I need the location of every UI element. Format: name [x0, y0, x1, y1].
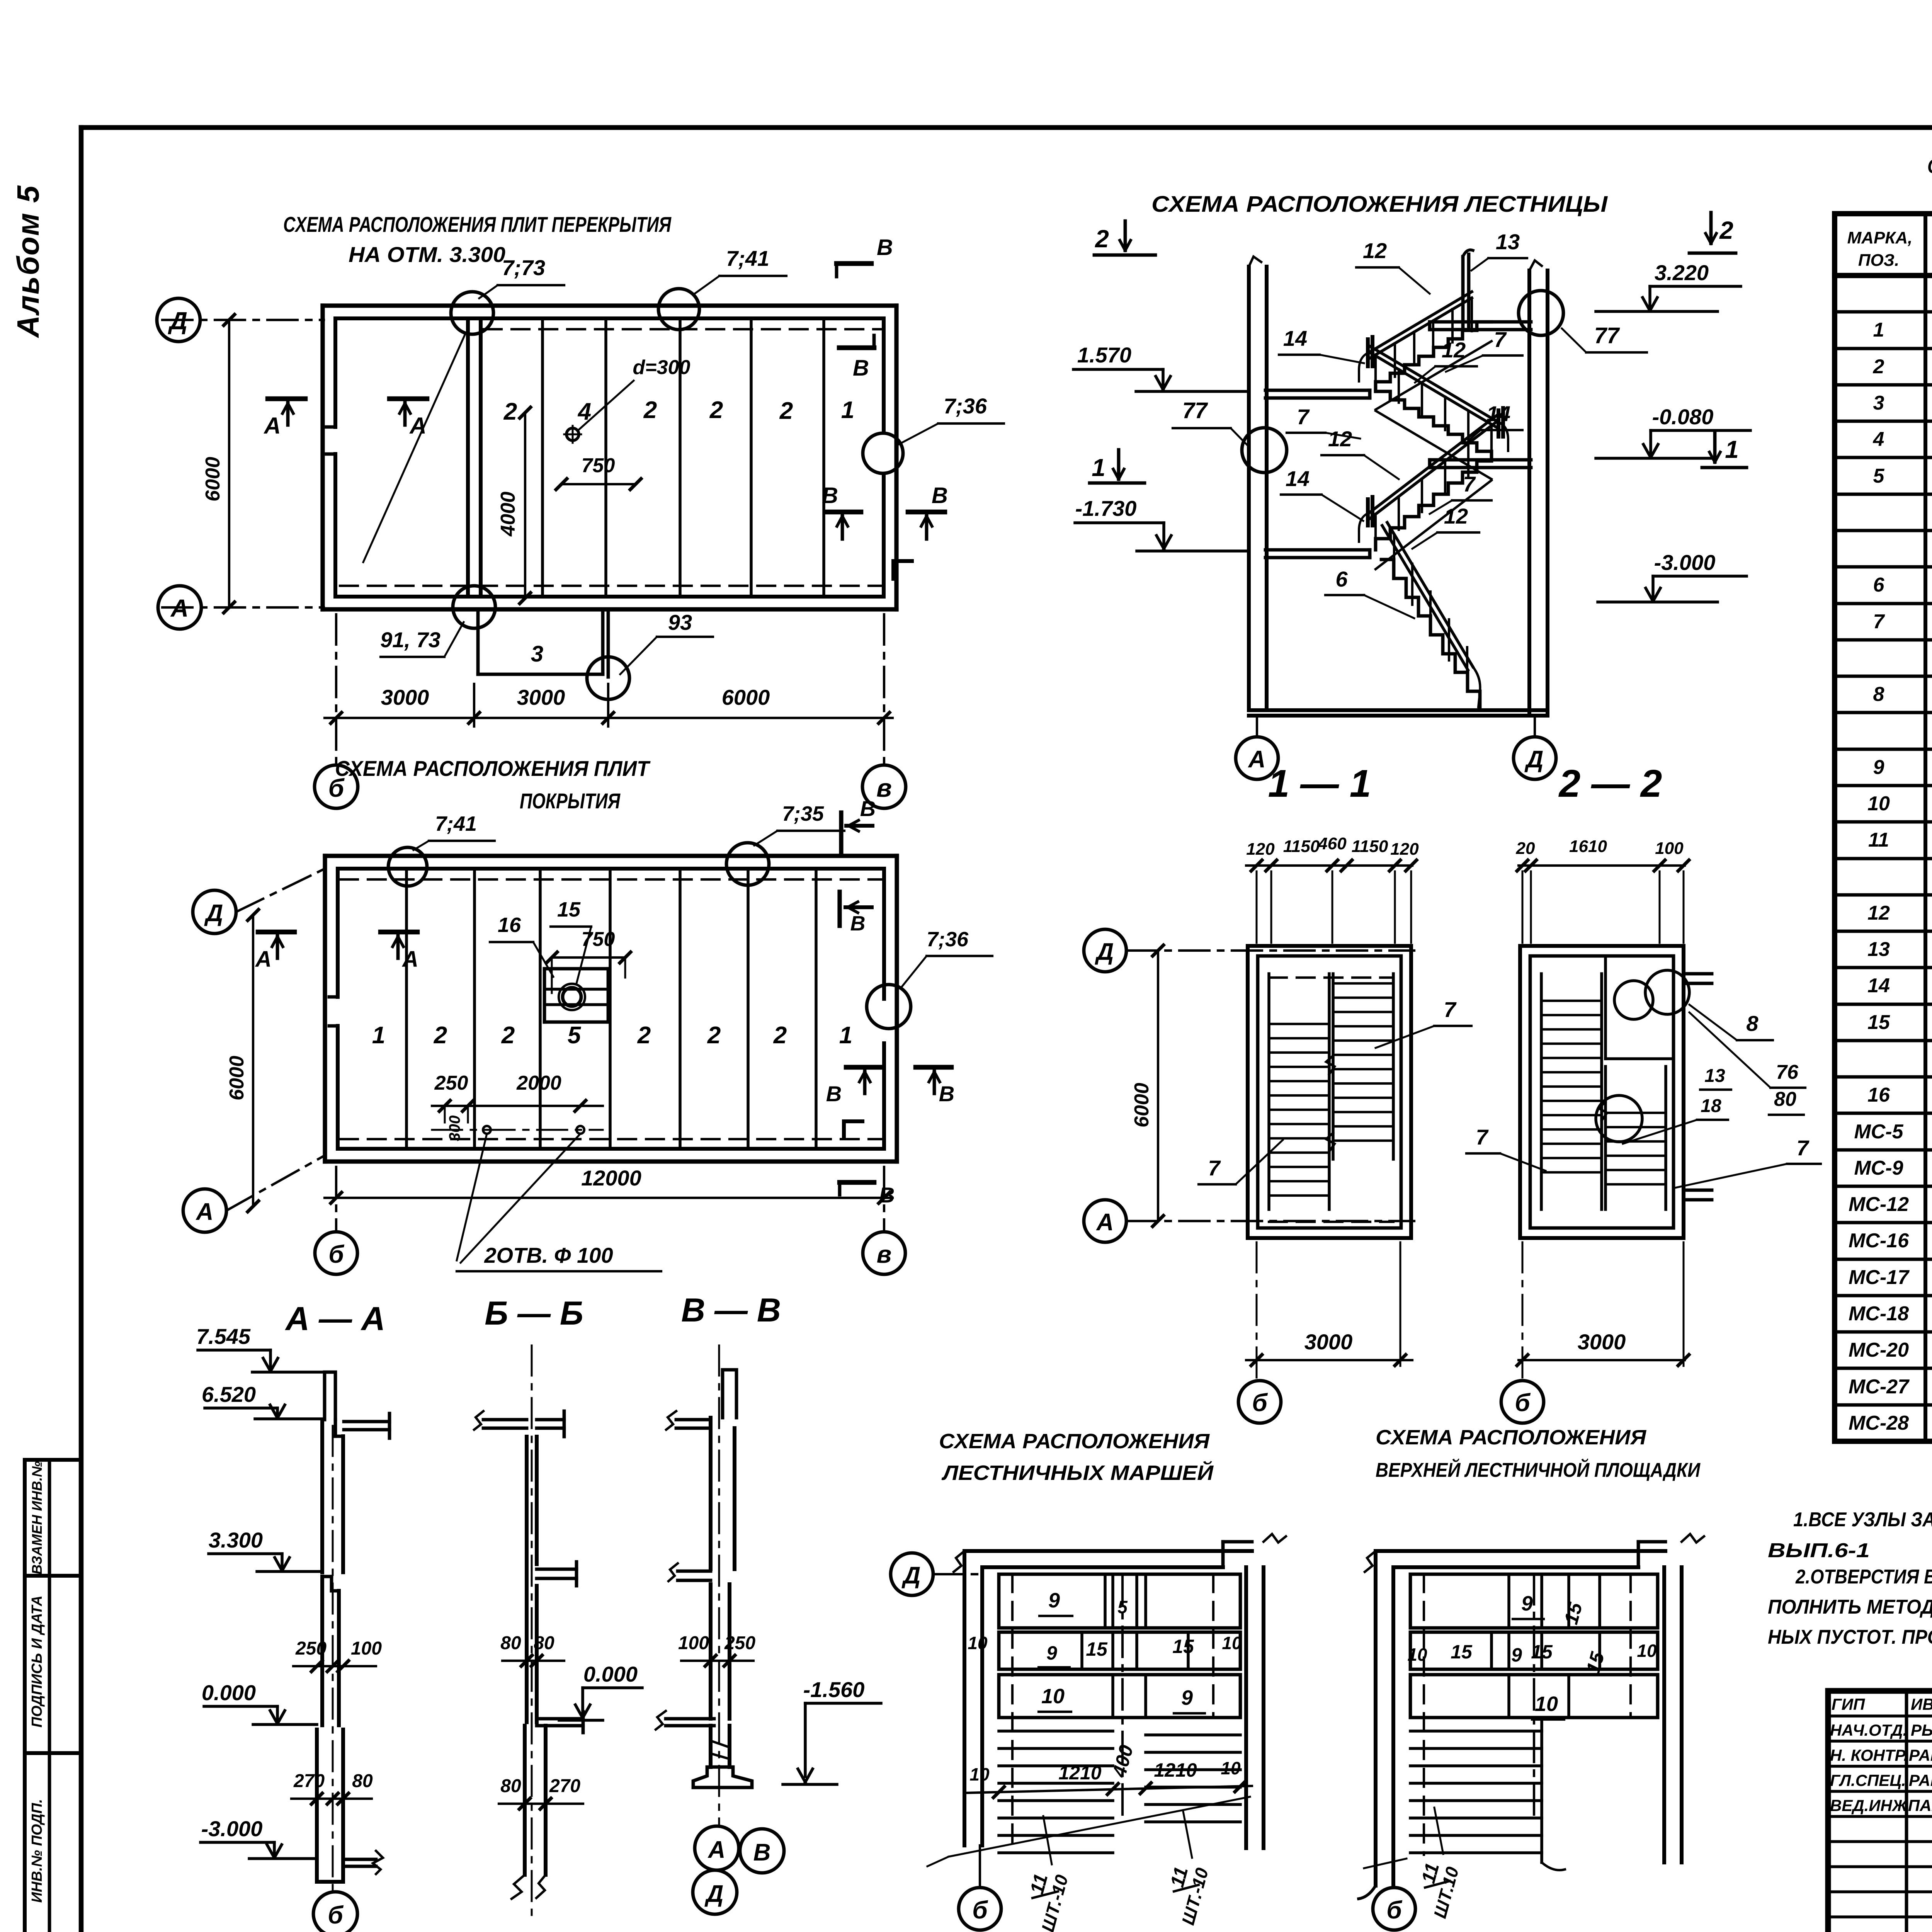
scheme1 left wall [963, 1551, 966, 1845]
svg-text:б: б [1386, 1896, 1403, 1924]
plan1 right wall [894, 306, 898, 609]
svg-text:7: 7 [1208, 1156, 1221, 1180]
svg-text:12000: 12000 [581, 1166, 641, 1190]
svg-text:10: 10 [1637, 1641, 1657, 1661]
svg-text:ВЕРХНЕЙ ЛЕСТНИЧНОЙ ПЛОЩАДКИ: ВЕРХНЕЙ ЛЕСТНИЧНОЙ ПЛОЩАДКИ [1376, 1458, 1701, 1481]
scheme1 diagonal break [949, 1797, 1250, 1857]
svg-text:В: В [877, 235, 893, 260]
svg-text:7: 7 [1494, 327, 1507, 352]
axis Д line [162, 319, 324, 321]
svg-text:Б — Б: Б — Б [485, 1295, 583, 1332]
Б-Б slab 3.300 stub [537, 1568, 577, 1571]
svg-text:6: 6 [1335, 567, 1348, 591]
title block left grid [1905, 1691, 1908, 1932]
axis circle б 1-1 [1238, 1381, 1281, 1423]
узел circle 77 left [1242, 428, 1287, 473]
scheme1 landing grid row2 [999, 1632, 1240, 1669]
svg-text:13: 13 [1867, 938, 1890, 961]
svg-text:8: 8 [1873, 683, 1884, 706]
svg-text:Н. КОНТР.: Н. КОНТР. [1830, 1746, 1908, 1764]
plan 2-2 right flight treads [1605, 1112, 1666, 1114]
svg-text:12: 12 [1867, 902, 1890, 924]
scheme2 left wall [1374, 1551, 1378, 1886]
svg-text:А: А [170, 594, 189, 622]
plan 2-2 detail circles [1614, 981, 1653, 1019]
В-В foundation pad [693, 1767, 752, 1787]
left stamp column boxes [23, 1460, 27, 1932]
svg-text:3000: 3000 [517, 685, 565, 709]
svg-text:14: 14 [1486, 401, 1510, 426]
svg-text:ПОДПИСЬ И ДАТА: ПОДПИСЬ И ДАТА [29, 1595, 45, 1728]
axis А line 1-1 [1127, 1220, 1414, 1222]
svg-text:СХЕМА РАСПОЛОЖЕНИЯ ПЛИТ ПЕРЕКР: СХЕМА РАСПОЛОЖЕНИЯ ПЛИТ ПЕРЕКРЫТИЯ [283, 212, 672, 236]
svg-text:2000: 2000 [516, 1072, 561, 1094]
section mark А-А right plan2 [381, 930, 417, 935]
А-А upper wall [320, 1420, 324, 1572]
svg-text:1 — 1: 1 — 1 [1268, 762, 1371, 805]
svg-text:2ОТВ. Ф 100: 2ОТВ. Ф 100 [484, 1243, 613, 1267]
axis circle Д plan2 left [193, 890, 236, 934]
section mark В mid plan2 [846, 1065, 882, 1070]
spec table header separator [1835, 273, 1932, 278]
section mark В right plan2 [916, 1065, 951, 1070]
svg-text:РАШЕВСКИЙ: РАШЕВСКИЙ [1909, 1770, 1932, 1789]
svg-text:ВЗАМЕН ИНВ.№: ВЗАМЕН ИНВ.№ [29, 1461, 45, 1574]
scheme1 left flight treads [999, 1730, 1113, 1733]
axis circle Д [157, 298, 200, 342]
svg-text:МС-18: МС-18 [1849, 1303, 1909, 1325]
А-А bottom slab stub [344, 1858, 376, 1861]
В-В upper wall [709, 1418, 713, 1569]
svg-text:1610: 1610 [1569, 837, 1607, 856]
scheme2 diagonal break [1364, 1859, 1406, 1868]
svg-text:100: 100 [351, 1638, 382, 1659]
label 2отв. ф100 [457, 1134, 487, 1260]
svg-text:1: 1 [1873, 319, 1884, 341]
axis circle б plan2 [315, 1232, 357, 1274]
svg-text:ПОКРЫТИЯ: ПОКРЫТИЯ [520, 789, 621, 813]
plan1 internal wall [466, 318, 470, 597]
plan 2-2 stair strips [1540, 974, 1543, 1209]
svg-text:А: А [263, 413, 281, 439]
svg-text:100: 100 [678, 1633, 709, 1653]
holes 2otv plan2 [432, 1129, 603, 1131]
svg-text:9: 9 [1511, 1644, 1522, 1666]
svg-text:250: 250 [434, 1072, 468, 1094]
plan1 hidden slab edges dashed [484, 328, 882, 330]
svg-text:2: 2 [1095, 225, 1109, 253]
dim 3000 bottom 2-2 [1519, 1359, 1685, 1361]
svg-text:ИНВ.№ ПОДП.: ИНВ.№ ПОДП. [29, 1799, 45, 1903]
svg-text:13: 13 [1496, 230, 1520, 254]
svg-text:6.520: 6.520 [202, 1382, 256, 1406]
plan2 bottom wall [325, 1159, 897, 1163]
узел circle 7;36 [863, 433, 903, 473]
scheme2 landing grid row2 [1410, 1632, 1658, 1669]
axis circle б under А-А [313, 1892, 357, 1932]
plan1 slab 3 protrusion [476, 609, 480, 674]
svg-text:91, 73: 91, 73 [380, 628, 440, 652]
svg-text:1150: 1150 [1283, 837, 1320, 856]
plan 1-1 left flight treads [1269, 1023, 1329, 1025]
stair axis circle А [1256, 716, 1258, 736]
svg-text:15: 15 [1867, 1011, 1890, 1034]
section mark В top plan1 [837, 261, 871, 266]
svg-text:В: В [822, 483, 838, 508]
landing -0.080 [1430, 458, 1531, 462]
section mark В top plan2 [839, 813, 843, 852]
svg-text:МС-27: МС-27 [1849, 1376, 1910, 1398]
scheme1 landing grid row1 [999, 1574, 1240, 1628]
svg-text:А: А [255, 947, 272, 972]
svg-text:СХЕМА РАСПОЛОЖЕНИЯ ЛЕСТНИЦЫ: СХЕМА РАСПОЛОЖЕНИЯ ЛЕСТНИЦЫ [1151, 192, 1608, 217]
scheme1 right wall [1244, 1567, 1248, 1848]
svg-text:3000: 3000 [1304, 1330, 1353, 1354]
newel 14 low flight [1366, 499, 1370, 526]
svg-text:7;35: 7;35 [782, 802, 824, 825]
svg-text:2: 2 [709, 397, 723, 423]
svg-text:МС-17: МС-17 [1849, 1266, 1910, 1289]
axis circle Б plan1 [315, 765, 358, 808]
svg-text:7;41: 7;41 [726, 246, 769, 270]
svg-text:МС-12: МС-12 [1849, 1193, 1909, 1216]
svg-text:1.570: 1.570 [1077, 343, 1131, 367]
svg-text:ГИП: ГИП [1832, 1695, 1865, 1713]
svg-text:460: 460 [1318, 834, 1347, 853]
svg-text:2: 2 [501, 1022, 515, 1049]
plan 1-1 right flight treads [1333, 982, 1393, 985]
svg-text:300: 300 [446, 1116, 463, 1141]
flight top 1.570-3.220 steps with railing 12 [1376, 322, 1492, 390]
svg-text:-1.560: -1.560 [803, 1677, 865, 1702]
svg-text:16: 16 [1867, 1084, 1890, 1106]
stair axis circle Д [1534, 716, 1536, 736]
svg-text:80: 80 [500, 1776, 521, 1796]
узел circle 91,73 [453, 586, 495, 628]
svg-text:77: 77 [1594, 323, 1620, 348]
svg-text:2: 2 [434, 1022, 447, 1049]
landing -1.730 [1265, 548, 1370, 552]
узел circle 77 right [1519, 291, 1563, 335]
svg-text:0.000: 0.000 [202, 1680, 256, 1705]
svg-text:В: В [932, 483, 948, 508]
axis circle А under В-В [695, 1826, 739, 1870]
svg-text:МС-5: МС-5 [1854, 1121, 1903, 1143]
svg-text:НЫХ ПУСТОТ. ПРОБИВАТЬ ОТВЕР: НЫХ ПУСТОТ. ПРОБИВАТЬ ОТВЕРСТИЯ НЕ ДОПУС… [1768, 1626, 1932, 1648]
svg-text:8: 8 [1746, 1011, 1759, 1036]
svg-text:3000: 3000 [1578, 1330, 1626, 1354]
plan1 bottom dimension line [325, 717, 893, 719]
svg-text:В: В [853, 355, 869, 381]
section mark А-А left plan2 [258, 930, 294, 935]
svg-text:2: 2 [1719, 216, 1733, 244]
А-А parapet [325, 1372, 335, 1420]
svg-text:б: б [1252, 1389, 1268, 1417]
svg-text:Альбом 5: Альбом 5 [11, 185, 45, 338]
svg-text:10: 10 [1221, 1758, 1241, 1778]
svg-text:7;73: 7;73 [502, 255, 545, 280]
svg-text:18: 18 [1701, 1096, 1721, 1116]
scheme1 top wall [964, 1549, 1252, 1553]
section mark В second plan2 [837, 892, 842, 926]
узел circle 93 [587, 657, 629, 699]
svg-text:ЛЕСТНИЧНЫХ МАРШЕЙ: ЛЕСТНИЧНЫХ МАРШЕЙ [941, 1461, 1214, 1485]
scheme1 axis circle Д [891, 1553, 933, 1595]
svg-text:Д: Д [901, 1562, 921, 1589]
svg-text:РАШЕВСКИЙ: РАШЕВСКИЙ [1909, 1745, 1932, 1764]
svg-text:В: В [939, 1082, 954, 1106]
axis circle А plan2 left [183, 1189, 226, 1232]
plan 2-2 wall stubs right top [1684, 972, 1712, 976]
svg-text:10: 10 [1867, 793, 1890, 815]
scheme2 flight treads [1410, 1730, 1542, 1733]
svg-text:9: 9 [1521, 1592, 1533, 1615]
svg-text:3.300: 3.300 [209, 1528, 263, 1552]
plan 2-2 break mark [1599, 1102, 1607, 1121]
svg-text:93: 93 [668, 610, 692, 634]
svg-text:1210: 1210 [1154, 1759, 1197, 1781]
plan2 opening circle [563, 988, 581, 1006]
scheme2 top wall [1376, 1549, 1665, 1553]
svg-text:-3.000: -3.000 [201, 1816, 263, 1841]
svg-text:120: 120 [1390, 840, 1419, 859]
svg-text:7: 7 [1463, 472, 1476, 496]
svg-text:80: 80 [352, 1771, 373, 1791]
svg-text:14: 14 [1867, 975, 1890, 997]
svg-text:76: 76 [1776, 1061, 1799, 1083]
svg-text:НА ОТМ. 3.300: НА ОТМ. 3.300 [349, 242, 505, 267]
svg-text:РЫБКИНА: РЫБКИНА [1911, 1721, 1932, 1739]
plan1 diagonal leader line [363, 333, 466, 562]
В-В pier [709, 1726, 713, 1767]
svg-text:4000: 4000 [497, 492, 519, 537]
svg-text:14: 14 [1286, 466, 1310, 491]
axis circle б 2-2 [1501, 1381, 1544, 1423]
plan2 hidden slab edges dashed [340, 878, 882, 881]
svg-text:7;36: 7;36 [927, 928, 969, 951]
А-А lower wall [315, 1730, 319, 1882]
svg-text:7: 7 [1297, 405, 1310, 429]
svg-text:МС-28: МС-28 [1849, 1412, 1909, 1434]
axis circle в plan2 [863, 1232, 905, 1274]
svg-text:13: 13 [1704, 1066, 1725, 1086]
svg-text:А: А [196, 1199, 214, 1225]
plan 1-1 break marks [1326, 1056, 1335, 1074]
svg-text:4: 4 [1873, 428, 1884, 451]
plan2 top wall [325, 854, 897, 858]
axis circle Д under В-В [693, 1870, 737, 1914]
svg-text:80: 80 [534, 1633, 554, 1653]
svg-text:6: 6 [1873, 574, 1885, 596]
svg-text:77: 77 [1182, 398, 1208, 423]
svg-text:б: б [328, 1901, 344, 1929]
scheme2 landing grid row3 [1410, 1675, 1658, 1718]
section mark А-А left plan1 [268, 396, 305, 401]
В-В roof slab stub [676, 1418, 711, 1422]
plan 1-1 hidden dashed [1269, 976, 1393, 979]
svg-text:Д: Д [704, 1881, 724, 1907]
svg-text:4: 4 [577, 398, 591, 425]
svg-text:СХЕМА РАСПОЛОЖЕНИЯ: СХЕМА РАСПОЛОЖЕНИЯ [1376, 1426, 1647, 1449]
svg-text:10: 10 [1041, 1685, 1065, 1708]
axis circle В under В-В [740, 1829, 784, 1873]
scheme1 dashed verticals [1011, 1574, 1014, 1847]
svg-text:2: 2 [643, 397, 657, 423]
svg-text:МС-16: МС-16 [1849, 1230, 1909, 1252]
newel 14 top flight [1366, 339, 1370, 366]
svg-text:ВЕД.ИНЖ: ВЕД.ИНЖ [1830, 1796, 1908, 1815]
svg-text:А: А [707, 1837, 726, 1863]
svg-text:МС-20: МС-20 [1849, 1339, 1909, 1361]
spec table row lines [1835, 310, 1932, 314]
dim 6000 vertical plan1 [228, 320, 230, 607]
svg-text:1: 1 [839, 1022, 852, 1049]
svg-text:Д: Д [168, 307, 187, 335]
svg-text:2 — 2: 2 — 2 [1558, 762, 1662, 805]
svg-text:0.000: 0.000 [583, 1662, 638, 1686]
svg-text:270: 270 [549, 1776, 580, 1796]
scheme1 landing grid row3 [999, 1675, 1240, 1718]
узел circle 7;41 [658, 289, 699, 330]
svg-text:1.ВСЕ УЗЛЫ ЗАМАРКИРОВАНЫ ПО СЕ: 1.ВСЕ УЗЛЫ ЗАМАРКИРОВАНЫ ПО СЕРИИ 1.090.… [1793, 1509, 1932, 1531]
svg-text:7: 7 [1873, 611, 1885, 633]
В-В slab 0.000 stub [666, 1717, 714, 1721]
section mark В bottom-right plan1 [908, 510, 945, 515]
svg-text:В: В [826, 1082, 842, 1106]
svg-text:Д: Д [1524, 746, 1544, 773]
svg-text:20: 20 [1516, 839, 1535, 858]
svg-text:3000: 3000 [381, 685, 429, 709]
svg-text:7;41: 7;41 [435, 812, 477, 835]
scheme1 axis circle б [979, 1845, 981, 1888]
flight mid -0.080-1.570 steps with railing 12 [1376, 391, 1492, 460]
plan 2-2 left flight treads [1541, 1000, 1602, 1002]
svg-text:В — В: В — В [681, 1292, 781, 1329]
svg-text:15: 15 [1451, 1641, 1473, 1663]
svg-text:МАРКА,: МАРКА, [1847, 228, 1913, 247]
Б-Б middle wall [525, 1568, 529, 1722]
Б-Б foundation [523, 1726, 527, 1875]
svg-text:б: б [972, 1896, 988, 1924]
svg-text:1210: 1210 [1058, 1762, 1101, 1784]
svg-text:250: 250 [295, 1638, 327, 1659]
Б-Б top slab stubs [483, 1418, 527, 1422]
dim 3000 bottom 1-1 [1246, 1359, 1412, 1361]
узел circle 7;41 plan2 [388, 847, 427, 886]
svg-text:-3.000: -3.000 [1654, 550, 1716, 575]
svg-text:2: 2 [773, 1022, 787, 1049]
А-А wall centerline [332, 1426, 334, 1890]
svg-text:6000: 6000 [226, 1056, 248, 1100]
spec table column lines [1923, 214, 1927, 1441]
svg-text:А: А [1248, 746, 1266, 773]
Б-Б axis centerline [531, 1345, 533, 1920]
svg-text:12: 12 [1363, 238, 1387, 263]
axis Д line 1-1 [1127, 949, 1414, 952]
svg-text:1150: 1150 [1352, 837, 1388, 856]
svg-text:15: 15 [1086, 1638, 1108, 1660]
svg-text:2: 2 [707, 1022, 721, 1049]
svg-text:1: 1 [372, 1022, 385, 1049]
svg-text:80: 80 [500, 1633, 521, 1653]
svg-text:6000: 6000 [722, 685, 770, 709]
svg-text:ИВАНОВА: ИВАНОВА [1911, 1695, 1932, 1713]
section mark В upper-right plan1 [839, 345, 874, 350]
landing 3.220 [1430, 320, 1531, 324]
svg-text:МС-9: МС-9 [1854, 1157, 1903, 1179]
узел circle 7;73 [451, 292, 493, 334]
stair section right wall [1527, 270, 1531, 713]
svg-text:В: В [879, 1183, 895, 1207]
svg-text:В: В [850, 912, 866, 935]
dim 6000 1-1 [1157, 951, 1159, 1221]
svg-text:в: в [876, 774, 892, 802]
svg-text:ПОЛНИТЬ МЕТОДОМ РАССВЕРЛОВКИ: ПОЛНИТЬ МЕТОДОМ РАССВЕРЛОВКИ В МЕСТАХ ПР… [1768, 1596, 1932, 1618]
plan1 left wall [320, 306, 325, 609]
svg-text:В: В [860, 796, 876, 821]
plan1 slab joints [541, 318, 544, 597]
svg-text:750: 750 [582, 928, 615, 951]
svg-text:-0.080: -0.080 [1652, 405, 1714, 429]
stair section left wall [1247, 267, 1251, 710]
А-А top slab stub [344, 1420, 389, 1423]
scheme2 lower right slab edge [1540, 1718, 1543, 1862]
Б-Б slab 0.000 stub [537, 1717, 583, 1721]
sheet border frame [81, 125, 1932, 130]
svg-text:7: 7 [1444, 997, 1457, 1022]
scheme2 axis circle б [1393, 1886, 1395, 1888]
svg-text:12: 12 [1328, 427, 1352, 451]
svg-text:СПЕЦИФИКАЦИЯ К СХЕМЕ РАСПОЛ: СПЕЦИФИКАЦИЯ К СХЕМЕ РАСПОЛОЖЕНИЯ [1927, 155, 1932, 178]
axis circle В plan1 [862, 765, 906, 808]
spec table outer frame [1835, 214, 1932, 1441]
svg-text:3.220: 3.220 [1655, 260, 1709, 285]
svg-text:В: В [753, 1839, 771, 1866]
plan 1-1 outer walls [1248, 946, 1411, 1238]
svg-text:СХЕМА РАСПОЛОЖЕНИЯ ПЛИТ: СХЕМА РАСПОЛОЖЕНИЯ ПЛИТ [335, 756, 651, 781]
svg-text:А — А: А — А [285, 1300, 385, 1337]
svg-text:2: 2 [779, 398, 793, 424]
scheme2 right wall [1662, 1567, 1666, 1862]
svg-text:Д: Д [1095, 939, 1114, 965]
flight bottom basement steps 6 with railing 12 [1381, 560, 1480, 710]
corner mark plan2 [842, 1121, 846, 1136]
hole d=300 plan1 [566, 428, 579, 440]
svg-text:А: А [409, 413, 426, 439]
svg-text:2: 2 [503, 398, 517, 425]
svg-text:7: 7 [1796, 1136, 1810, 1160]
railing newel 13 [1461, 257, 1465, 327]
plan1 top wall [323, 303, 896, 308]
section mark А-А right plan1 [389, 396, 427, 401]
svg-text:б: б [328, 1240, 345, 1268]
plan2 right wall [895, 856, 899, 1162]
svg-text:d=300: d=300 [633, 356, 690, 379]
svg-text:1: 1 [1725, 435, 1739, 463]
svg-text:2: 2 [1873, 355, 1884, 378]
svg-text:15: 15 [557, 898, 581, 921]
plan 1-1 top dims 120 1150 460 1150 120 [1246, 864, 1412, 867]
dim 12000 plan2 [325, 1197, 893, 1199]
svg-text:9: 9 [1048, 1589, 1060, 1612]
А-А middle wall [320, 1577, 324, 1725]
landing 1.570 [1265, 389, 1370, 392]
svg-text:2.ОТВЕРСТИЯ В МНОГОПУСТОТНЫХ П: 2.ОТВЕРСТИЯ В МНОГОПУСТОТНЫХ ПЛИТАХ ДО 1… [1795, 1566, 1932, 1588]
svg-text:7: 7 [1476, 1125, 1489, 1149]
svg-text:100: 100 [1655, 839, 1684, 858]
svg-text:80: 80 [1774, 1088, 1796, 1111]
scheme2 dashed verticals [1423, 1574, 1425, 1855]
